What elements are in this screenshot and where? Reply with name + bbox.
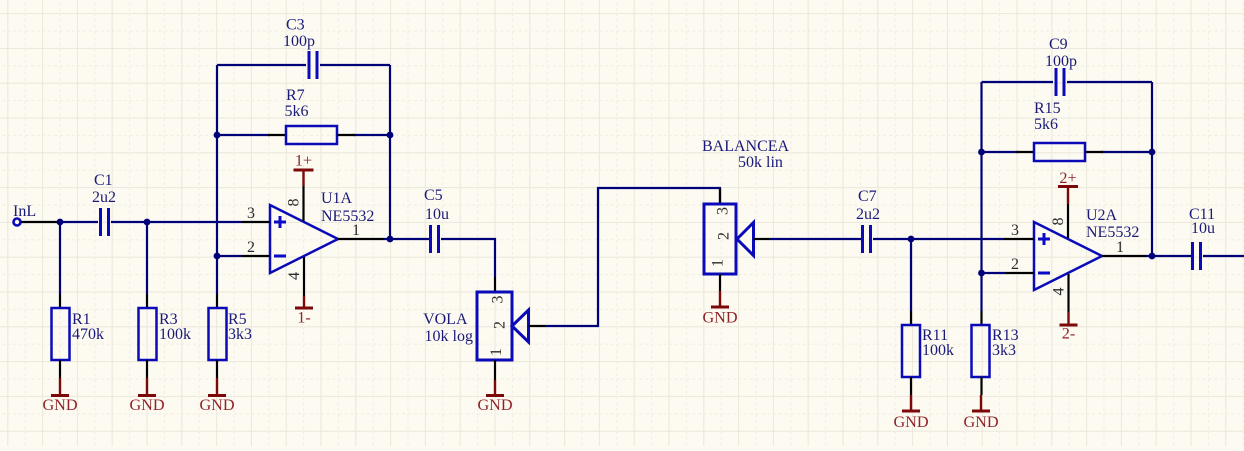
potentiometer BALANCEA [702,138,790,291]
svg-text:10u: 10u [1191,220,1215,237]
potentiometer VOLA [423,277,545,380]
svg-text:8: 8 [1050,218,1067,226]
ground GND (R3) [129,378,164,414]
svg-text:2-: 2- [1062,325,1075,343]
svg-text:8: 8 [286,199,303,207]
junction pin2 node / R5 [214,253,221,260]
wire feedback top run [217,64,390,66]
wire R15 row [982,151,1153,153]
power port 1- [295,296,313,327]
svg-text:2: 2 [492,321,509,329]
wire R7 row [217,134,390,136]
wire pin2 U2A [982,272,1007,274]
svg-text:4: 4 [286,272,303,280]
wire C1 to pin3 of U1A [111,221,242,223]
svg-text:GND: GND [893,413,928,431]
resistor R15 [1016,100,1103,161]
svg-text:U1A: U1A [321,190,353,207]
svg-text:GND: GND [42,396,77,414]
svg-text:3: 3 [1011,222,1019,239]
svg-text:1: 1 [1116,239,1124,256]
svg-text:2: 2 [716,232,733,240]
op-amp U2A [1034,207,1139,290]
svg-text:5k6: 5k6 [285,103,309,120]
pin 8 of U1A [286,186,304,221]
ground GND (BALANCEA) [702,291,737,327]
svg-text:GND: GND [199,396,234,414]
wire pin2 U1A [217,255,242,257]
svg-text:100k: 100k [159,326,191,343]
svg-text:100k: 100k [922,342,954,359]
wire U1A output to C5 [384,238,429,240]
resistor R7 [268,87,355,144]
svg-text:C9: C9 [1049,36,1068,53]
svg-text:5k6: 5k6 [1034,116,1058,133]
wire R3 top drop [146,222,148,294]
pin 1 of U2A (output) [1102,239,1146,256]
svg-text:VOLA: VOLA [423,311,468,328]
svg-text:3k3: 3k3 [992,342,1016,359]
ground GND (R5) [199,378,234,414]
wire feedback2 right vertical [1151,82,1153,256]
pin 3 of U1A [242,205,270,222]
resistor R11 [902,311,954,395]
ground GND (R13) [963,395,998,431]
capacitor C9 [1045,36,1077,96]
svg-text:4: 4 [1051,288,1068,296]
pin 4 of U2A [1051,274,1069,312]
wire U2A output to C11 [1146,255,1191,257]
ground GND (R11) [893,395,928,431]
svg-text:R7: R7 [286,87,305,104]
capacitor C5 [424,187,449,253]
wire C5 to VOLA pin3 [441,239,495,277]
svg-text:100p: 100p [1045,53,1077,70]
resistor R1 [52,294,105,378]
pin 2 of U2A [1006,256,1034,273]
power port 1+ [294,152,314,187]
junction at R11 top [908,236,915,243]
ground GND (R1) [42,378,77,414]
junction pin2 node / R13 [978,270,985,277]
svg-text:3: 3 [490,296,507,304]
pin 4 of U1A [286,257,304,296]
junction feedback right / R7 [387,132,394,139]
wire BALANCEA wiper to C7 [769,238,861,240]
wire feedback2 top run [982,81,1153,83]
port InL [13,203,60,226]
svg-text:100p: 100p [283,33,315,50]
svg-text:GND: GND [963,413,998,431]
capacitor C1 [92,172,116,236]
wire C11 to right edge [1203,255,1244,257]
svg-text:C7: C7 [858,188,877,205]
wire VOLA wiper to BALANCEA pin3 [545,188,720,326]
junction at R1 top [57,219,64,226]
svg-text:NE5532: NE5532 [321,208,374,225]
power port 2- [1060,312,1078,343]
svg-text:C5: C5 [424,187,443,204]
svg-text:1: 1 [488,348,505,356]
svg-text:2: 2 [1011,256,1019,273]
svg-text:GND: GND [702,309,737,327]
junction output node U2A [1149,253,1156,260]
junction feedback left / R7 [214,132,221,139]
wire R11 top drop [910,239,912,311]
svg-text:2: 2 [247,239,255,256]
svg-text:1-: 1- [297,309,310,327]
junction at R3 top [144,219,151,226]
svg-text:3: 3 [247,205,255,222]
wire feedback2 left vertical [980,82,982,311]
svg-text:NE5532: NE5532 [1086,224,1139,241]
svg-text:1: 1 [710,259,727,267]
resistor R13 [972,311,1019,395]
resistor R3 [139,294,192,378]
capacitor C7 [856,188,880,253]
capacitor C3 [283,17,317,80]
resistor R5 [209,294,253,378]
svg-text:R15: R15 [1034,100,1061,117]
wire feedback left vertical [216,65,218,294]
svg-text:10k log: 10k log [425,328,473,345]
svg-text:1+: 1+ [295,152,312,170]
wire InL node to C1 [60,221,98,223]
svg-text:1: 1 [352,222,360,239]
svg-text:C3: C3 [286,17,305,34]
wire R1 top drop [59,222,61,294]
svg-text:10u: 10u [425,206,449,223]
svg-text:BALANCEA: BALANCEA [702,138,790,155]
svg-text:GND: GND [477,396,512,414]
pin 2 of U1A [242,239,270,256]
svg-text:GND: GND [129,396,164,414]
svg-text:50k lin: 50k lin [738,154,783,171]
wire feedback right vertical [389,65,391,239]
power port 2+ [1058,169,1078,204]
capacitor C11 [1189,206,1215,270]
svg-text:2u2: 2u2 [92,189,116,206]
svg-text:2u2: 2u2 [856,206,880,223]
svg-text:3k3: 3k3 [228,326,252,343]
ground GND (VOLA) [477,380,512,414]
svg-text:2+: 2+ [1059,169,1076,187]
pin 1 of U1A (output) [338,222,384,239]
svg-text:3: 3 [715,207,732,215]
svg-text:C1: C1 [94,172,113,189]
junction feedback2 left / R15 [978,149,985,156]
pin 8 of U2A [1050,204,1068,238]
junction output node U1A [387,236,394,243]
svg-text:470k: 470k [72,326,104,343]
svg-text:U2A: U2A [1086,207,1118,224]
pin 3 of U2A [1004,222,1034,239]
junction feedback2 right / R15 [1149,149,1156,156]
op-amp U1A [270,190,374,273]
wire C7 to pin3 of U2A [873,238,1004,240]
